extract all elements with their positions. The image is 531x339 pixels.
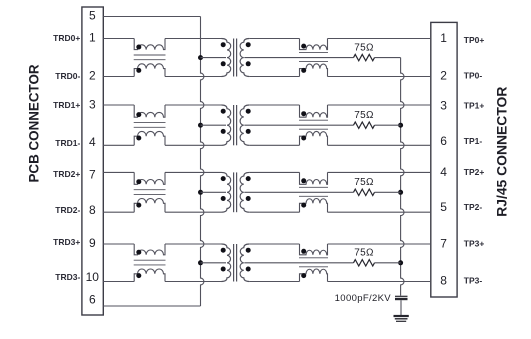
common-mode choke channel 3 (right) top winding: [300, 244, 328, 255]
svg-text:RJ/45 CONNECTOR: RJ/45 CONNECTOR: [493, 87, 509, 217]
common-mode choke channel 3 (right) bottom winding: [300, 269, 328, 282]
wire secondary center tap through choke to resistor (ch3): [244, 262, 353, 264]
common-mode choke channel 2 (right) bottom winding: [300, 199, 328, 213]
right termination rail to capacitor: [401, 58, 404, 296]
common-mode choke channel 1 (right) bottom winding: [300, 131, 328, 145]
transformer T2 primary winding: [222, 105, 231, 145]
transformer T3 primary winding: [222, 172, 231, 212]
wire choke to RJ45 pin (bottom, ch0): [328, 76, 431, 78]
choke 3 left core: [134, 259, 166, 261]
wire TRD1- pin to choke: [103, 144, 134, 146]
choke 0 right core: [299, 52, 328, 54]
svg-text:1: 1: [440, 31, 447, 45]
wire choke to RJ45 pin (bottom, ch2): [328, 211, 431, 213]
junction: termination rail: [398, 260, 403, 265]
phase dot T4 secondary upper: [246, 248, 251, 253]
svg-text:5: 5: [89, 9, 96, 23]
wire transformer to right choke (top, ch1): [249, 104, 299, 106]
resistor R1 75 ohm: [354, 54, 375, 60]
wire choke to transformer (top, ch0): [165, 38, 222, 40]
common-mode choke channel 1 (left) top winding: [134, 105, 165, 117]
transformer T2 core: [233, 105, 235, 145]
transformer T1 primary winding: [222, 39, 231, 77]
choke 0 left core: [134, 54, 166, 56]
svg-text:TP2+: TP2+: [464, 167, 485, 177]
svg-text:10: 10: [86, 270, 100, 284]
junction: termination rail: [398, 190, 403, 195]
left center-tap rail (pins 5/6): [201, 17, 204, 307]
phase dot T2 secondary lower: [246, 129, 251, 134]
wire transformer to right choke (bottom, ch2): [249, 211, 299, 213]
wire capacitor to ground: [400, 300, 402, 315]
svg-text:3: 3: [440, 99, 447, 113]
svg-text:75Ω: 75Ω: [354, 248, 374, 259]
phase dot choke 2 right bottom: [301, 203, 306, 208]
transformer T3 secondary winding: [240, 172, 249, 212]
svg-text:4: 4: [89, 135, 96, 149]
phase dot choke 2 left bottom: [136, 203, 141, 208]
phase dot choke 0 left top: [136, 45, 141, 50]
wire choke to RJ45 pin (top, ch2): [328, 171, 431, 173]
phase dot T2 primary lower: [221, 129, 226, 134]
svg-text:2: 2: [89, 69, 96, 83]
common-mode choke channel 3 (left) bottom winding: [134, 269, 165, 282]
transformer T1 secondary winding: [240, 39, 249, 77]
phase dot T2 secondary upper: [246, 109, 251, 114]
phase dot choke 3 right top: [301, 249, 306, 254]
phase dot choke 1 right bottom: [301, 136, 306, 141]
svg-text:1000pF/2KV: 1000pF/2KV: [335, 293, 392, 304]
transformer T1 core: [233, 39, 235, 77]
svg-text:TP3+: TP3+: [464, 238, 485, 248]
common-mode choke channel 1 (left) bottom winding: [134, 131, 165, 145]
wire resistor R4 to termination rail: [375, 262, 401, 264]
transformer T4 secondary winding: [240, 244, 249, 282]
common-mode choke channel 2 (left) top winding: [134, 172, 165, 184]
phase dot T3 secondary upper: [246, 176, 251, 181]
phase dot choke 3 left top: [136, 250, 141, 255]
RJ45 connector J2 body: [431, 22, 457, 297]
svg-text:8: 8: [89, 203, 96, 217]
wire choke to transformer (top, ch2): [165, 171, 222, 173]
wire secondary center tap through choke to resistor (ch2): [244, 191, 353, 193]
wire transformer to right choke (top, ch3): [249, 243, 299, 245]
svg-text:75Ω: 75Ω: [354, 177, 374, 188]
phase dot T1 secondary lower: [246, 61, 251, 66]
wire transformer to right choke (bottom, ch0): [249, 76, 299, 78]
label RJ/45 CONNECTOR: [493, 87, 509, 217]
junction: left center tap: [198, 123, 203, 128]
common-mode choke channel 0 (right) top winding: [300, 39, 328, 50]
svg-text:3: 3: [89, 98, 96, 112]
wire choke to RJ45 pin (top, ch0): [328, 38, 431, 40]
wire resistor R3 to termination rail: [375, 191, 401, 193]
choke 1 left core: [134, 122, 166, 124]
phase dot choke 1 left bottom: [136, 136, 141, 141]
wire TRD2- pin to choke: [103, 211, 134, 213]
transformer T4 primary winding: [222, 244, 231, 282]
PCB connector J1 body: [82, 7, 103, 315]
resistor R2 75 ohm: [354, 122, 375, 128]
wire choke to transformer (bottom, ch1): [165, 144, 222, 146]
wire T3 primary center tap to rail: [201, 191, 227, 193]
junction: left center tap: [198, 55, 203, 60]
svg-text:2: 2: [440, 69, 447, 83]
choke 3 right core: [299, 257, 328, 259]
phase dot T1 primary lower: [221, 61, 226, 66]
wire T4 primary center tap to rail: [201, 262, 227, 264]
phase dot choke 0 right bottom: [301, 68, 306, 73]
wire transformer to right choke (bottom, ch1): [249, 144, 299, 146]
svg-text:5: 5: [440, 200, 447, 214]
choke 1 right core: [299, 119, 328, 121]
svg-text:1: 1: [89, 31, 96, 45]
svg-text:TP3-: TP3-: [464, 275, 483, 285]
phase dot choke 0 left bottom: [136, 68, 141, 73]
svg-text:8: 8: [440, 274, 447, 288]
phase dot choke 1 right top: [301, 111, 306, 116]
svg-text:9: 9: [89, 236, 96, 250]
svg-text:75Ω: 75Ω: [354, 42, 374, 53]
ground (chassis earth): [394, 315, 409, 317]
wire resistor R1 to termination rail: [375, 57, 401, 59]
phase dot T2 primary upper: [221, 109, 226, 114]
label PCB CONNECTOR: [27, 64, 42, 182]
phase dot T4 secondary lower: [246, 267, 251, 272]
phase dot T1 secondary upper: [246, 42, 251, 47]
svg-text:6: 6: [440, 134, 447, 148]
common-mode choke channel 0 (right) bottom winding: [300, 64, 328, 77]
svg-text:75Ω: 75Ω: [354, 110, 374, 121]
svg-text:7: 7: [440, 237, 447, 251]
capacitor C1 1000pF/2KV: [395, 295, 408, 297]
wire secondary center tap through choke to resistor (ch0): [244, 57, 353, 59]
svg-text:6: 6: [89, 293, 96, 307]
common-mode choke channel 2 (left) bottom winding: [134, 198, 165, 212]
phase dot T3 primary upper: [221, 176, 226, 181]
resistor R3 75 ohm: [354, 189, 375, 195]
choke 2 left core: [134, 189, 166, 191]
svg-text:TRD0+: TRD0+: [53, 33, 80, 43]
wire choke to RJ45 pin (top, ch3): [328, 243, 431, 245]
wire choke to transformer (bottom, ch2): [165, 211, 222, 213]
phase dot T4 primary lower: [221, 267, 226, 272]
junction: left center tap: [198, 190, 203, 195]
wire choke to RJ45 pin (bottom, ch1): [328, 144, 431, 146]
wire TRD1+ pin to choke: [103, 104, 134, 106]
svg-text:TRD3-: TRD3-: [55, 272, 80, 282]
transformer T2 secondary winding: [240, 105, 249, 145]
wire T2 primary center tap to rail: [201, 124, 227, 126]
svg-text:TP0+: TP0+: [464, 35, 485, 45]
wire TRD3- pin to choke: [103, 281, 134, 283]
transformer T4 core: [233, 244, 235, 282]
svg-text:TRD1-: TRD1-: [55, 138, 80, 148]
wire choke to transformer (top, ch3): [165, 243, 222, 245]
wire choke to transformer (bottom, ch3): [165, 281, 222, 283]
wire choke to RJ45 pin (top, ch1): [328, 104, 431, 106]
svg-text:TRD2+: TRD2+: [53, 169, 80, 179]
wire TRD0- pin to choke: [103, 76, 134, 78]
svg-text:TP1-: TP1-: [464, 136, 483, 146]
svg-text:TRD2-: TRD2-: [55, 205, 80, 215]
common-mode choke channel 3 (left) top winding: [134, 244, 165, 255]
wire T1 primary center tap to rail: [201, 57, 227, 59]
resistor R4 75 ohm: [354, 260, 375, 266]
wire choke to transformer (bottom, ch0): [165, 76, 222, 78]
wire choke to transformer (top, ch1): [165, 104, 222, 106]
phase dot T1 primary upper: [221, 42, 226, 47]
svg-text:TP2-: TP2-: [464, 202, 483, 212]
wire resistor R2 to termination rail: [375, 124, 401, 126]
wire transformer to right choke (top, ch0): [249, 38, 299, 40]
choke 2 right core: [299, 186, 328, 188]
phase dot choke 0 right top: [301, 44, 306, 49]
common-mode choke channel 1 (right) top winding: [300, 105, 328, 117]
phase dot choke 2 left top: [136, 179, 141, 184]
phase dot T3 primary lower: [221, 196, 226, 201]
wire TRD3+ pin to choke: [103, 243, 134, 245]
phase dot choke 2 right top: [301, 178, 306, 183]
svg-text:TRD3+: TRD3+: [53, 237, 80, 247]
junction: termination rail: [398, 123, 403, 128]
transformer T3 core: [233, 172, 235, 212]
phase dot choke 3 left bottom: [136, 273, 141, 278]
common-mode choke channel 0 (left) bottom winding: [134, 64, 165, 77]
wire secondary center tap through choke to resistor (ch1): [244, 124, 353, 126]
svg-text:TP1+: TP1+: [464, 100, 485, 110]
wire TRD0+ pin to choke: [103, 38, 134, 40]
svg-text:7: 7: [89, 168, 96, 182]
phase dot T3 secondary lower: [246, 196, 251, 201]
svg-text:4: 4: [440, 165, 447, 179]
phase dot choke 3 right bottom: [301, 273, 306, 278]
wire transformer to right choke (bottom, ch3): [249, 281, 299, 283]
phase dot choke 1 left top: [136, 112, 141, 117]
svg-text:PCB CONNECTOR: PCB CONNECTOR: [27, 64, 42, 182]
svg-text:TP0-: TP0-: [464, 70, 483, 80]
wire choke to RJ45 pin (bottom, ch3): [328, 281, 431, 283]
common-mode choke channel 2 (right) top winding: [300, 172, 328, 184]
svg-text:TRD0-: TRD0-: [55, 71, 80, 81]
phase dot T4 primary upper: [221, 248, 226, 253]
junction: left center tap: [198, 260, 203, 265]
svg-text:TRD1+: TRD1+: [53, 100, 80, 110]
wire pin5 to center-tap rail: [103, 16, 200, 18]
wire pin6 to center-tap rail: [103, 305, 200, 307]
common-mode choke channel 0 (left) top winding: [134, 39, 165, 50]
wire TRD2+ pin to choke: [103, 171, 134, 173]
wire transformer to right choke (top, ch2): [249, 171, 299, 173]
